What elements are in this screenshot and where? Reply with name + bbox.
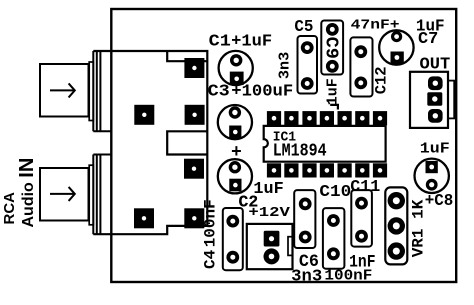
svg-text:C1: C1 [209,32,231,51]
svg-text:RCA: RCA [1,192,18,225]
capacitor C7 [379,17,444,65]
IC U1 pads bottom row [267,163,387,177]
RCA plug 2 body [40,168,89,221]
pin 1 marker [330,105,338,110]
capacitor C6 [291,190,322,286]
capacitor C8 [415,140,454,210]
RCA jack J2 flange [89,155,112,235]
connector OUT [410,55,454,128]
connector +12V [239,192,293,269]
capacitor C5 [276,17,317,94]
svg-text:C5: C5 [294,17,313,36]
jack pad 2 [134,105,154,125]
svg-text:C4: C4 [202,249,220,269]
svg-text:3n3: 3n3 [291,267,322,286]
svg-text:+C8: +C8 [425,192,454,210]
label RCA Audio IN [1,158,38,228]
board outline [111,9,456,282]
jack pad 1 [184,58,204,78]
IC U1 pads top row [267,111,387,125]
capacitor C2 [218,143,284,211]
jack pad 3 [185,105,205,125]
svg-text:1nF: 1nF [349,252,375,272]
svg-text:100nF: 100nF [202,199,220,247]
svg-text:C9: C9 [321,37,342,59]
svg-text:1uF: 1uF [325,78,342,105]
svg-text:C12: C12 [372,66,390,94]
arrow 1 [50,83,75,97]
capacitor C11 [349,177,380,272]
jack pad 5 [134,208,154,228]
RCA jack J1 flange [89,51,112,131]
capacitor C12 [350,18,399,96]
svg-text:C7: C7 [418,29,438,48]
capacitor C1 [209,32,272,85]
svg-text:1uF: 1uF [420,140,450,157]
svg-text:+1uF: +1uF [231,32,272,51]
capacitor C3 [208,82,294,140]
capacitor C10 [319,182,372,284]
RCA plug 1 body [40,64,89,117]
svg-text:LM1894: LM1894 [273,142,327,162]
trimpot VR1 1K [385,187,427,264]
svg-text:Audio IN: Audio IN [16,158,38,228]
svg-text:3n3: 3n3 [276,52,294,79]
IC U1 body IC1 LM1894 [264,126,386,162]
svg-text:OUT: OUT [420,55,451,74]
svg-text:+12V: +12V [248,206,291,221]
svg-text:C11: C11 [350,177,380,196]
svg-text:C10: C10 [319,182,351,201]
jack pad 4 [184,159,204,179]
svg-text:+100uF: +100uF [231,82,293,101]
jack pad 6 [184,208,204,228]
capacitor C9 [321,21,344,106]
svg-text:+: + [231,143,242,163]
arrow 2 [50,187,75,201]
svg-text:C3: C3 [208,82,230,101]
capacitor C4 [202,199,243,270]
RCA jack footprint outline [93,51,207,234]
